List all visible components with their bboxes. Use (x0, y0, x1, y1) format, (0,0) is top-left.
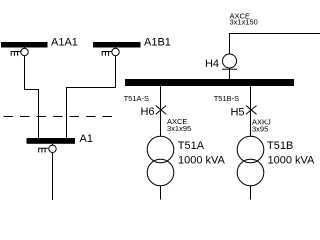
busbar A1A1 (1, 42, 48, 48)
svg-text:T51A: T51A (178, 140, 205, 152)
svg-text:A1: A1 (80, 133, 93, 145)
svg-text:T51B-S: T51B-S (214, 94, 239, 103)
svg-text:T51A-S: T51A-S (124, 94, 149, 103)
wire A1B1 to A1 (67, 56, 116, 138)
wire A1A1 to A1 (25, 56, 39, 138)
svg-text:3x1x95: 3x1x95 (167, 124, 191, 133)
incoming wire from top right (230, 34, 320, 55)
breaker (truck+circle) under A1A1 (11, 48, 29, 56)
svg-text:A1B1: A1B1 (144, 37, 171, 49)
svg-text:3x1x150: 3x1x150 (230, 18, 258, 27)
wire below T51B (250, 186, 252, 200)
wire busbar to transformer T51A (160, 86, 162, 137)
svg-text:A1A1: A1A1 (51, 37, 78, 49)
breaker (truck+circle) under A1 (38, 144, 56, 153)
main 400V busbar (125, 79, 294, 86)
fuse H6 (cross) (156, 106, 167, 115)
svg-text:T51B: T51B (267, 140, 293, 152)
svg-text:1000 kVA: 1000 kVA (268, 155, 316, 167)
breaker (truck+circle) under A1B1 (102, 48, 120, 56)
boundary dashed line (4, 116, 117, 118)
busbar A1B1 (93, 42, 141, 48)
fuse H5 (cross) (246, 106, 257, 115)
transformer T51B (237, 136, 264, 163)
svg-text:H4: H4 (205, 58, 219, 70)
busbar A1 (27, 138, 76, 144)
svg-text:H6: H6 (140, 106, 154, 118)
svg-text:3x95: 3x95 (252, 125, 268, 134)
svg-text:H5: H5 (230, 107, 244, 119)
wire busbar to transformer T51B (250, 86, 252, 137)
wire below A1 (52, 153, 54, 201)
wire below T51A (160, 186, 162, 200)
switch H4 (223, 54, 237, 68)
wire H4 to busbar (229, 68, 231, 79)
svg-text:1000 kVA: 1000 kVA (178, 155, 226, 167)
transformer T51A (147, 136, 174, 163)
